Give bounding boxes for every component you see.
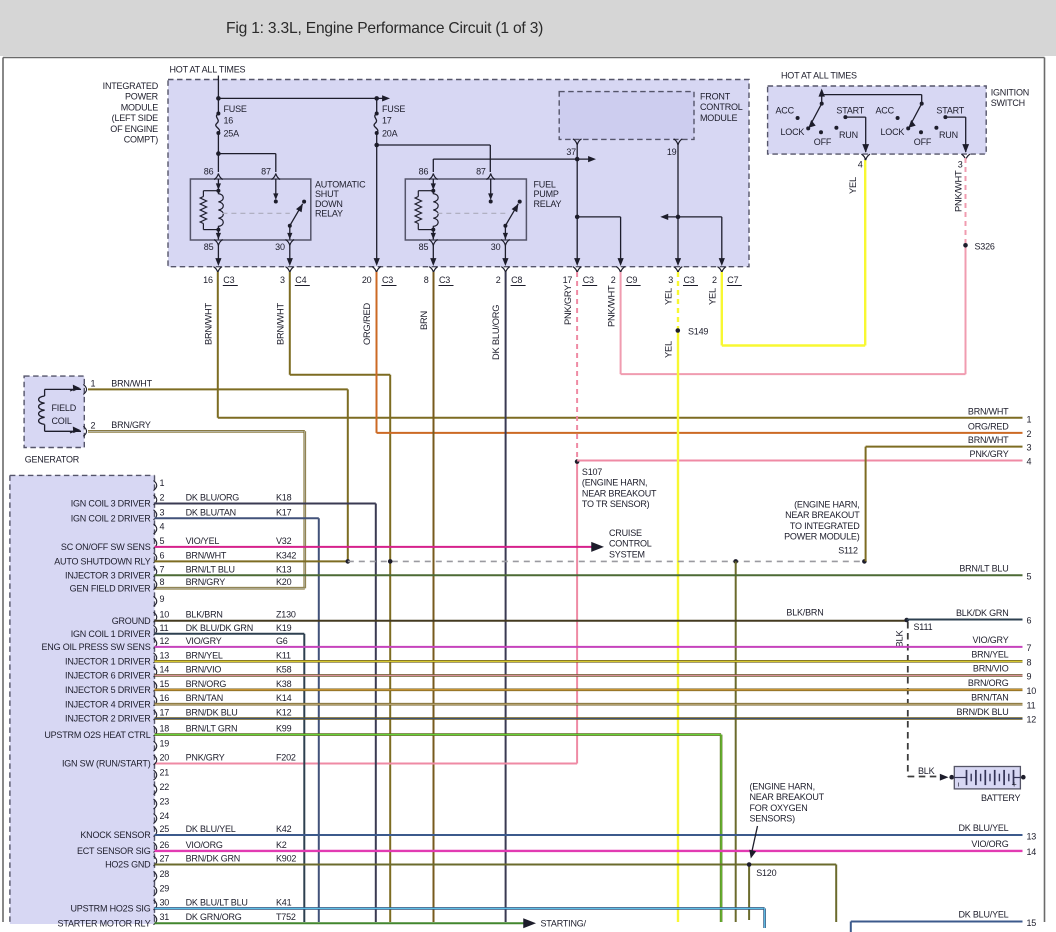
- svg-text:DK BLU/LT BLU: DK BLU/LT BLU: [186, 897, 248, 907]
- svg-text:OFF: OFF: [814, 137, 832, 147]
- connector C3 pin 20: [362, 267, 397, 286]
- svg-text:MODULE: MODULE: [700, 113, 738, 123]
- label FRONT CONTROL MODULE: [700, 92, 743, 123]
- wire BRN/WHT from C3-16: [204, 272, 1023, 418]
- label right wire 1 BRN/WHT: [968, 407, 1032, 425]
- wire YEL ignition pin 4: [848, 158, 865, 194]
- svg-text:F202: F202: [276, 753, 296, 763]
- svg-text:4: 4: [160, 521, 165, 531]
- svg-text:INJECTOR 1 DRIVER: INJECTOR 1 DRIVER: [65, 657, 151, 667]
- svg-text:LOCK: LOCK: [881, 127, 905, 137]
- svg-text:K41: K41: [276, 897, 292, 907]
- wire YEL from C7-2 to ignition switch: [708, 160, 866, 346]
- svg-text:5: 5: [160, 536, 165, 546]
- connector C7 pin 2: [712, 267, 742, 286]
- svg-text:CONTROL: CONTROL: [700, 102, 743, 112]
- svg-text:INTEGRATED: INTEGRATED: [103, 81, 159, 91]
- connector C8 pin 2: [496, 267, 526, 286]
- svg-text:87: 87: [476, 167, 486, 177]
- PCM pin 27: [105, 854, 296, 870]
- svg-text:BRN/ORG: BRN/ORG: [968, 678, 1009, 688]
- PCM pin 6: [54, 550, 296, 566]
- svg-text:RUN: RUN: [839, 130, 858, 140]
- label INTEGRATED POWER MODULE: [103, 81, 159, 145]
- PCM pin 30: [70, 897, 291, 913]
- PCM pin 28: [154, 869, 170, 882]
- svg-text:RUN: RUN: [939, 130, 958, 140]
- svg-text:S326: S326: [975, 241, 995, 251]
- svg-text:28: 28: [160, 869, 170, 879]
- svg-text:PNK/WHT: PNK/WHT: [954, 170, 964, 212]
- svg-text:CRUISE: CRUISE: [609, 528, 642, 538]
- svg-text:K18: K18: [276, 493, 292, 503]
- wire BRN/WHT from C4-3: [276, 272, 391, 922]
- svg-text:20: 20: [362, 275, 372, 285]
- svg-text:GEN FIELD DRIVER: GEN FIELD DRIVER: [70, 583, 152, 593]
- svg-text:ECT SENSOR SIG: ECT SENSOR SIG: [77, 846, 151, 856]
- wire DK BLU/YEL right wire 15: [851, 910, 1037, 932]
- svg-text:K14: K14: [276, 693, 292, 703]
- wire K342 BRN/WHT pin 6 with S112 dashed run: [155, 559, 867, 564]
- svg-text:(ENGINE HARN,: (ENGINE HARN,: [582, 478, 647, 488]
- svg-text:ı: ı: [958, 780, 960, 789]
- svg-text:10: 10: [160, 610, 170, 620]
- svg-text:AUTO SHUTDOWN RLY: AUTO SHUTDOWN RLY: [54, 557, 150, 567]
- PCM pin 20: [62, 753, 296, 769]
- wire PNK/WHT from C9-2: [606, 245, 965, 374]
- PCM pin 22: [154, 782, 170, 795]
- svg-text:INJECTOR 3 DRIVER: INJECTOR 3 DRIVER: [65, 571, 151, 581]
- svg-text:VIO/GRY: VIO/GRY: [186, 636, 222, 646]
- svg-text:4: 4: [1027, 457, 1032, 467]
- PCM pin 31: [58, 912, 296, 928]
- svg-text:17: 17: [563, 275, 573, 285]
- svg-text:PUMP: PUMP: [534, 189, 559, 199]
- svg-text:13: 13: [1027, 832, 1037, 842]
- wire: FCM pin 19: [660, 139, 725, 266]
- svg-text:FOR OXYGEN: FOR OXYGEN: [750, 803, 808, 813]
- svg-text:BRN: BRN: [419, 311, 429, 330]
- wire: FPR 30 to C8-2: [502, 244, 508, 266]
- svg-text:RELAY: RELAY: [534, 199, 562, 209]
- svg-text:86: 86: [204, 167, 214, 177]
- svg-text:YEL: YEL: [708, 288, 718, 305]
- wire V32 VIO/YEL pin 5 to cruise control: [155, 542, 605, 552]
- wire K19 DK BLU/DK GRN pin 11: [155, 634, 305, 922]
- HOT AT ALL TIMES (left): [170, 65, 246, 81]
- svg-text:BRN/LT BLU: BRN/LT BLU: [186, 564, 235, 574]
- connector C3 pin 8: [424, 267, 454, 286]
- PCM pin 10: [112, 610, 296, 626]
- PCM pin 7: [65, 564, 292, 580]
- svg-text:86: 86: [419, 167, 429, 177]
- svg-text:INJECTOR 6 DRIVER: INJECTOR 6 DRIVER: [65, 671, 151, 681]
- svg-text:ORG/RED: ORG/RED: [362, 303, 372, 345]
- svg-text:INJECTOR 4 DRIVER: INJECTOR 4 DRIVER: [65, 699, 151, 709]
- svg-text:85: 85: [204, 242, 214, 252]
- svg-text:BLK: BLK: [918, 766, 935, 776]
- svg-text:LOCK: LOCK: [781, 127, 805, 137]
- PCM connector box: [10, 475, 155, 924]
- svg-text:SYSTEM: SYSTEM: [609, 549, 645, 559]
- svg-text:25A: 25A: [224, 129, 240, 139]
- svg-text:HOT AT ALL TIMES: HOT AT ALL TIMES: [781, 71, 857, 81]
- wire BRN/WHT generator pin 1 to S112 run: [88, 378, 348, 561]
- svg-text:1: 1: [160, 478, 165, 488]
- wire K11 BRN/YEL pin 13 right wire 8: [155, 650, 1032, 668]
- wire: fuse16 output to ASD relay 86 and 87: [216, 133, 276, 172]
- svg-text:YEL: YEL: [664, 341, 674, 358]
- svg-text:V32: V32: [276, 536, 292, 546]
- svg-text:IGN COIL 1 DRIVER: IGN COIL 1 DRIVER: [71, 629, 151, 639]
- wire: FCM pin 37: [566, 139, 623, 266]
- label right wire 2 ORG/RED: [968, 422, 1032, 440]
- PCM pin 24: [154, 811, 170, 824]
- svg-text:START: START: [936, 106, 964, 116]
- svg-text:BLK/BRN: BLK/BRN: [786, 608, 823, 618]
- svg-text:S111: S111: [914, 622, 933, 632]
- svg-text:C3: C3: [382, 275, 393, 285]
- svg-text:18: 18: [160, 724, 170, 734]
- svg-text:2: 2: [496, 275, 501, 285]
- svg-text:ACC: ACC: [776, 106, 795, 116]
- svg-text:INJECTOR 2 DRIVER: INJECTOR 2 DRIVER: [65, 714, 151, 724]
- svg-text:DK BLU/YEL: DK BLU/YEL: [958, 823, 1008, 833]
- wire: ignition feed: [819, 89, 922, 104]
- svg-text:7: 7: [1027, 643, 1032, 653]
- title bar: [0, 0, 1056, 56]
- svg-text:START: START: [836, 106, 864, 116]
- svg-text:6: 6: [160, 550, 165, 560]
- svg-text:K902: K902: [276, 854, 296, 864]
- svg-text:BLK: BLK: [895, 630, 905, 648]
- svg-text:FUSE: FUSE: [224, 104, 247, 114]
- svg-text:BRN/YEL: BRN/YEL: [186, 650, 223, 660]
- svg-text:10: 10: [1027, 686, 1037, 696]
- svg-text:30: 30: [491, 242, 501, 252]
- wire K99 BRN/LT GRN pin 18: [155, 735, 722, 922]
- svg-text:S112: S112: [838, 546, 858, 556]
- ignition switch wafer 2 (ACC LOCK OFF RUN START): [876, 102, 971, 161]
- wire PNK/GRY right wire 4: [577, 449, 1031, 467]
- svg-text:26: 26: [160, 840, 170, 850]
- PCM pin 2: [71, 493, 292, 509]
- svg-text:3: 3: [668, 275, 673, 285]
- wire: ASD 85 to C3-16: [215, 244, 221, 266]
- svg-text:C3: C3: [439, 275, 450, 285]
- wire K13 BRN/LT BLU pin 7 right wire 5: [155, 564, 1032, 582]
- svg-text:S107: S107: [582, 467, 602, 477]
- svg-text:IGN SW (RUN/START): IGN SW (RUN/START): [62, 759, 151, 769]
- svg-text:K11: K11: [276, 650, 291, 660]
- svg-text:K19: K19: [276, 623, 292, 633]
- svg-text:KNOCK SENSOR: KNOCK SENSOR: [80, 830, 151, 840]
- svg-text:K42: K42: [276, 824, 292, 834]
- svg-text:16: 16: [160, 693, 170, 703]
- svg-text:K12: K12: [276, 708, 292, 718]
- fuse F17 20A: [374, 104, 405, 139]
- wire: ASD 30 to C4-3: [287, 244, 293, 266]
- svg-text:C8: C8: [511, 275, 522, 285]
- svg-text:3: 3: [1027, 443, 1032, 453]
- wire BLK/BRN branch below S112: [735, 561, 737, 922]
- svg-text:C3: C3: [583, 275, 594, 285]
- svg-text:PNK/GRY: PNK/GRY: [563, 285, 573, 325]
- node S149: [676, 327, 709, 337]
- PCM pin 19: [154, 739, 170, 752]
- svg-text:29: 29: [160, 883, 170, 893]
- svg-text:GROUND: GROUND: [112, 616, 151, 626]
- svg-text:UPSTRM O2S HEAT CTRL: UPSTRM O2S HEAT CTRL: [44, 730, 150, 740]
- svg-text:17: 17: [160, 708, 170, 718]
- integrated power module box: [168, 80, 749, 267]
- svg-text:2: 2: [712, 275, 717, 285]
- svg-text:SWITCH: SWITCH: [991, 98, 1025, 108]
- svg-text:8: 8: [160, 577, 165, 587]
- wire: fuse17 output to FPR 87 and C3-20: [374, 133, 491, 266]
- wire K12 BRN/DK BLU pin 17 right wire 12: [155, 707, 1037, 725]
- svg-text:K38: K38: [276, 679, 292, 689]
- svg-text:6: 6: [1027, 616, 1032, 626]
- svg-text:BRN/WHT: BRN/WHT: [204, 302, 214, 345]
- PCM pin 11: [71, 623, 292, 639]
- svg-text:IGNITION: IGNITION: [991, 88, 1029, 98]
- connector C3 pin 16: [203, 267, 238, 286]
- svg-text:+: +: [1012, 780, 1017, 790]
- svg-text:BLK/DK GRN: BLK/DK GRN: [956, 608, 1009, 618]
- svg-text:12: 12: [160, 636, 170, 646]
- svg-text:C3: C3: [684, 275, 695, 285]
- svg-text:K20: K20: [276, 577, 292, 587]
- svg-text:37: 37: [566, 147, 576, 157]
- svg-text:BRN/DK BLU: BRN/DK BLU: [186, 708, 238, 718]
- svg-text:BRN/VIO: BRN/VIO: [973, 664, 1009, 674]
- svg-text:HOT AT ALL TIMES: HOT AT ALL TIMES: [170, 65, 246, 75]
- svg-text:DK BLU/ORG: DK BLU/ORG: [491, 305, 501, 360]
- generator pin 1: [70, 379, 96, 395]
- svg-text:11: 11: [1027, 701, 1036, 711]
- svg-text:8: 8: [1027, 658, 1032, 668]
- connector C9 pin 2: [611, 267, 641, 286]
- wire Z130 BLK/BRN pin 10 to S111: [155, 608, 907, 621]
- svg-text:22: 22: [160, 782, 170, 792]
- wire YEL from C3-3 with splice S149: [664, 272, 679, 922]
- battery G1: [949, 767, 1025, 804]
- svg-text:G6: G6: [276, 636, 288, 646]
- HOT AT ALL TIMES (ignition): [781, 71, 857, 81]
- svg-text:1: 1: [1027, 415, 1032, 425]
- generator box with field coil: [24, 376, 84, 447]
- wire PNK/GRY from C3-17 with splice S107: [155, 272, 578, 764]
- PCM pin 17: [65, 708, 292, 724]
- svg-text:2: 2: [91, 421, 96, 431]
- svg-text:5: 5: [1027, 572, 1032, 582]
- PCM pin 5: [61, 536, 292, 552]
- svg-text:17: 17: [382, 116, 392, 126]
- svg-text:SC ON/OFF SW SENS: SC ON/OFF SW SENS: [61, 542, 151, 552]
- svg-text:14: 14: [1027, 847, 1037, 857]
- svg-text:2: 2: [611, 275, 616, 285]
- connector C3 pin 3: [668, 267, 698, 286]
- wire K17 DK BLU/TAN pin 3: [155, 518, 319, 922]
- svg-text:C4: C4: [295, 275, 306, 285]
- svg-text:TO INTEGRATED: TO INTEGRATED: [790, 521, 860, 531]
- svg-text:20: 20: [160, 753, 170, 763]
- svg-text:K13: K13: [276, 564, 292, 574]
- svg-text:BRN/GRY: BRN/GRY: [186, 577, 226, 587]
- svg-text:FRONT: FRONT: [700, 92, 731, 102]
- svg-text:30: 30: [275, 242, 285, 252]
- svg-text:YEL: YEL: [664, 288, 674, 305]
- svg-text:Fig 1: 3.3L, Engine Performanc: Fig 1: 3.3L, Engine Performance Circuit …: [226, 20, 543, 37]
- fuse F16 25A: [216, 104, 247, 139]
- svg-text:OFF: OFF: [914, 137, 932, 147]
- wire PNK/WHT ignition pin 3 with splice S326: [954, 158, 966, 374]
- svg-text:NEAR BREAKOUT: NEAR BREAKOUT: [582, 488, 657, 498]
- svg-text:NEAR BREAKOUT: NEAR BREAKOUT: [750, 792, 825, 802]
- svg-text:12: 12: [1027, 715, 1037, 725]
- label ENGINE HARN NEAR BREAKOUT FOR OXYGEN SENSORS: [749, 782, 824, 859]
- svg-text:16: 16: [224, 116, 234, 126]
- svg-text:STARTING/: STARTING/: [541, 919, 587, 929]
- svg-text:(ENGINE HARN,: (ENGINE HARN,: [794, 500, 859, 510]
- svg-text:1: 1: [91, 379, 96, 389]
- svg-text:20A: 20A: [382, 129, 398, 139]
- svg-text:SENSORS): SENSORS): [750, 814, 796, 824]
- svg-text:DOWN: DOWN: [315, 199, 343, 209]
- svg-text:3: 3: [160, 507, 165, 517]
- svg-text:(LEFT SIDE: (LEFT SIDE: [112, 113, 159, 123]
- wire: FPR 85 to C3-8: [430, 244, 436, 266]
- wire: IPM top feed bus: [216, 80, 390, 114]
- svg-text:OF ENGINE: OF ENGINE: [110, 124, 158, 134]
- svg-text:ORG/RED: ORG/RED: [968, 422, 1009, 432]
- svg-text:BRN/TAN: BRN/TAN: [971, 693, 1008, 703]
- svg-text:IGN COIL 2 DRIVER: IGN COIL 2 DRIVER: [71, 514, 151, 524]
- svg-text:IGN COIL 3 DRIVER: IGN COIL 3 DRIVER: [71, 499, 151, 509]
- svg-text:K342: K342: [276, 550, 296, 560]
- svg-text:9: 9: [160, 594, 165, 604]
- svg-text:15: 15: [160, 679, 170, 689]
- svg-text:COIL: COIL: [52, 416, 72, 426]
- node S107: [575, 459, 657, 509]
- svg-text:K99: K99: [276, 724, 292, 734]
- svg-text:BRN/DK BLU: BRN/DK BLU: [956, 707, 1008, 717]
- wire BRN/WHT S112 to right wire 3: [866, 435, 1032, 561]
- wire ORG/RED from C3-20: [362, 272, 1023, 433]
- svg-text:16: 16: [203, 275, 213, 285]
- svg-text:K17: K17: [276, 507, 292, 517]
- svg-text:NEAR BREAKOUT: NEAR BREAKOUT: [785, 510, 860, 520]
- wire K18 DK BLU/ORG pin 2: [155, 504, 376, 923]
- svg-text:INJECTOR 5 DRIVER: INJECTOR 5 DRIVER: [65, 685, 151, 695]
- node S111: [904, 618, 932, 632]
- PCM pin 13: [65, 650, 291, 666]
- PCM pin 14: [65, 664, 292, 680]
- svg-text:C7: C7: [727, 275, 738, 285]
- ignition switch box: [768, 86, 987, 154]
- node S120: [747, 862, 777, 878]
- PCM pin 26: [77, 840, 287, 856]
- svg-text:ACC: ACC: [876, 106, 895, 116]
- svg-text:2: 2: [160, 493, 165, 503]
- svg-text:DK BLU/YEL: DK BLU/YEL: [186, 824, 236, 834]
- connector C4 pin 3: [280, 267, 310, 286]
- wire K2 VIO/ORG pin 26 right wire 14: [155, 839, 1037, 857]
- svg-text:31: 31: [160, 912, 170, 922]
- PCM pin 9: [154, 594, 165, 607]
- svg-text:C9: C9: [626, 275, 637, 285]
- svg-text:HO2S GND: HO2S GND: [105, 860, 151, 870]
- wire BRN from C3-8: [419, 272, 434, 922]
- wire T752 DK GRN/ORG pin 31 to starting system: [155, 918, 587, 928]
- svg-text:S120: S120: [756, 868, 776, 878]
- wire K42 DK BLU/YEL pin 25 right wire 13: [155, 823, 1037, 842]
- PCM pin 18: [44, 724, 291, 740]
- svg-text:4: 4: [858, 160, 863, 170]
- label GENERATOR: [25, 455, 80, 465]
- svg-text:15: 15: [1027, 918, 1037, 928]
- svg-text:BRN/LT BLU: BRN/LT BLU: [959, 564, 1008, 574]
- wire G6 VIO/GRY pin 12 right wire 7: [155, 635, 1032, 653]
- svg-text:85: 85: [419, 242, 429, 252]
- svg-text:CONTROL: CONTROL: [609, 539, 652, 549]
- svg-text:VIO/ORG: VIO/ORG: [971, 839, 1008, 849]
- relay K2 FUEL PUMP RELAY: [405, 167, 561, 253]
- svg-text:9: 9: [1027, 672, 1032, 682]
- svg-text:24: 24: [160, 811, 170, 821]
- svg-text:PNK/GRY: PNK/GRY: [186, 753, 225, 763]
- wire BLK dashed from S111 to battery: [895, 622, 949, 781]
- svg-text:BRN/GRY: BRN/GRY: [111, 420, 151, 430]
- svg-text:C3: C3: [223, 275, 234, 285]
- svg-text:3: 3: [280, 275, 285, 285]
- svg-text:7: 7: [160, 564, 165, 574]
- relay K1 AUTOMATIC SHUT DOWN RELAY: [190, 167, 366, 253]
- svg-text:BRN/YEL: BRN/YEL: [971, 650, 1008, 660]
- wire: FPR 86 feed from node 37: [433, 156, 596, 172]
- PCM pin 15: [65, 679, 292, 695]
- PCM pin 23: [154, 797, 170, 810]
- wire BRN/GRY generator pin 2 to PCM pin 8: [88, 420, 305, 588]
- svg-text:21: 21: [160, 768, 170, 778]
- node S326: [963, 241, 995, 251]
- svg-text:25: 25: [160, 824, 170, 834]
- svg-text:2: 2: [1027, 429, 1032, 439]
- PCM pin 16: [65, 693, 292, 709]
- svg-text:POWER: POWER: [125, 92, 159, 102]
- svg-text:14: 14: [160, 664, 170, 674]
- svg-text:8: 8: [424, 275, 429, 285]
- svg-text:GENERATOR: GENERATOR: [25, 455, 80, 465]
- svg-text:PNK/WHT: PNK/WHT: [606, 285, 616, 327]
- svg-text:BLK/BRN: BLK/BRN: [186, 610, 223, 620]
- PCM pin 12: [42, 636, 288, 652]
- svg-text:DK BLU/TAN: DK BLU/TAN: [186, 507, 236, 517]
- svg-text:VIO/YEL: VIO/YEL: [186, 536, 220, 546]
- wire K41 DK BLU/LT BLU pin 30: [155, 908, 765, 928]
- svg-text:BRN/WHT: BRN/WHT: [968, 435, 1009, 445]
- wire DK BLU/ORG from C8-2: [491, 272, 506, 922]
- svg-text:RELAY: RELAY: [315, 209, 343, 219]
- svg-text:DK GRN/ORG: DK GRN/ORG: [186, 912, 242, 922]
- svg-text:ENG OIL PRESS SW SENS: ENG OIL PRESS SW SENS: [42, 642, 151, 652]
- svg-text:FIELD: FIELD: [52, 403, 77, 413]
- svg-text:VIO/ORG: VIO/ORG: [186, 840, 223, 850]
- svg-text:STARTER MOTOR RLY: STARTER MOTOR RLY: [58, 918, 151, 928]
- svg-text:FUEL: FUEL: [534, 179, 556, 189]
- svg-text:27: 27: [160, 854, 170, 864]
